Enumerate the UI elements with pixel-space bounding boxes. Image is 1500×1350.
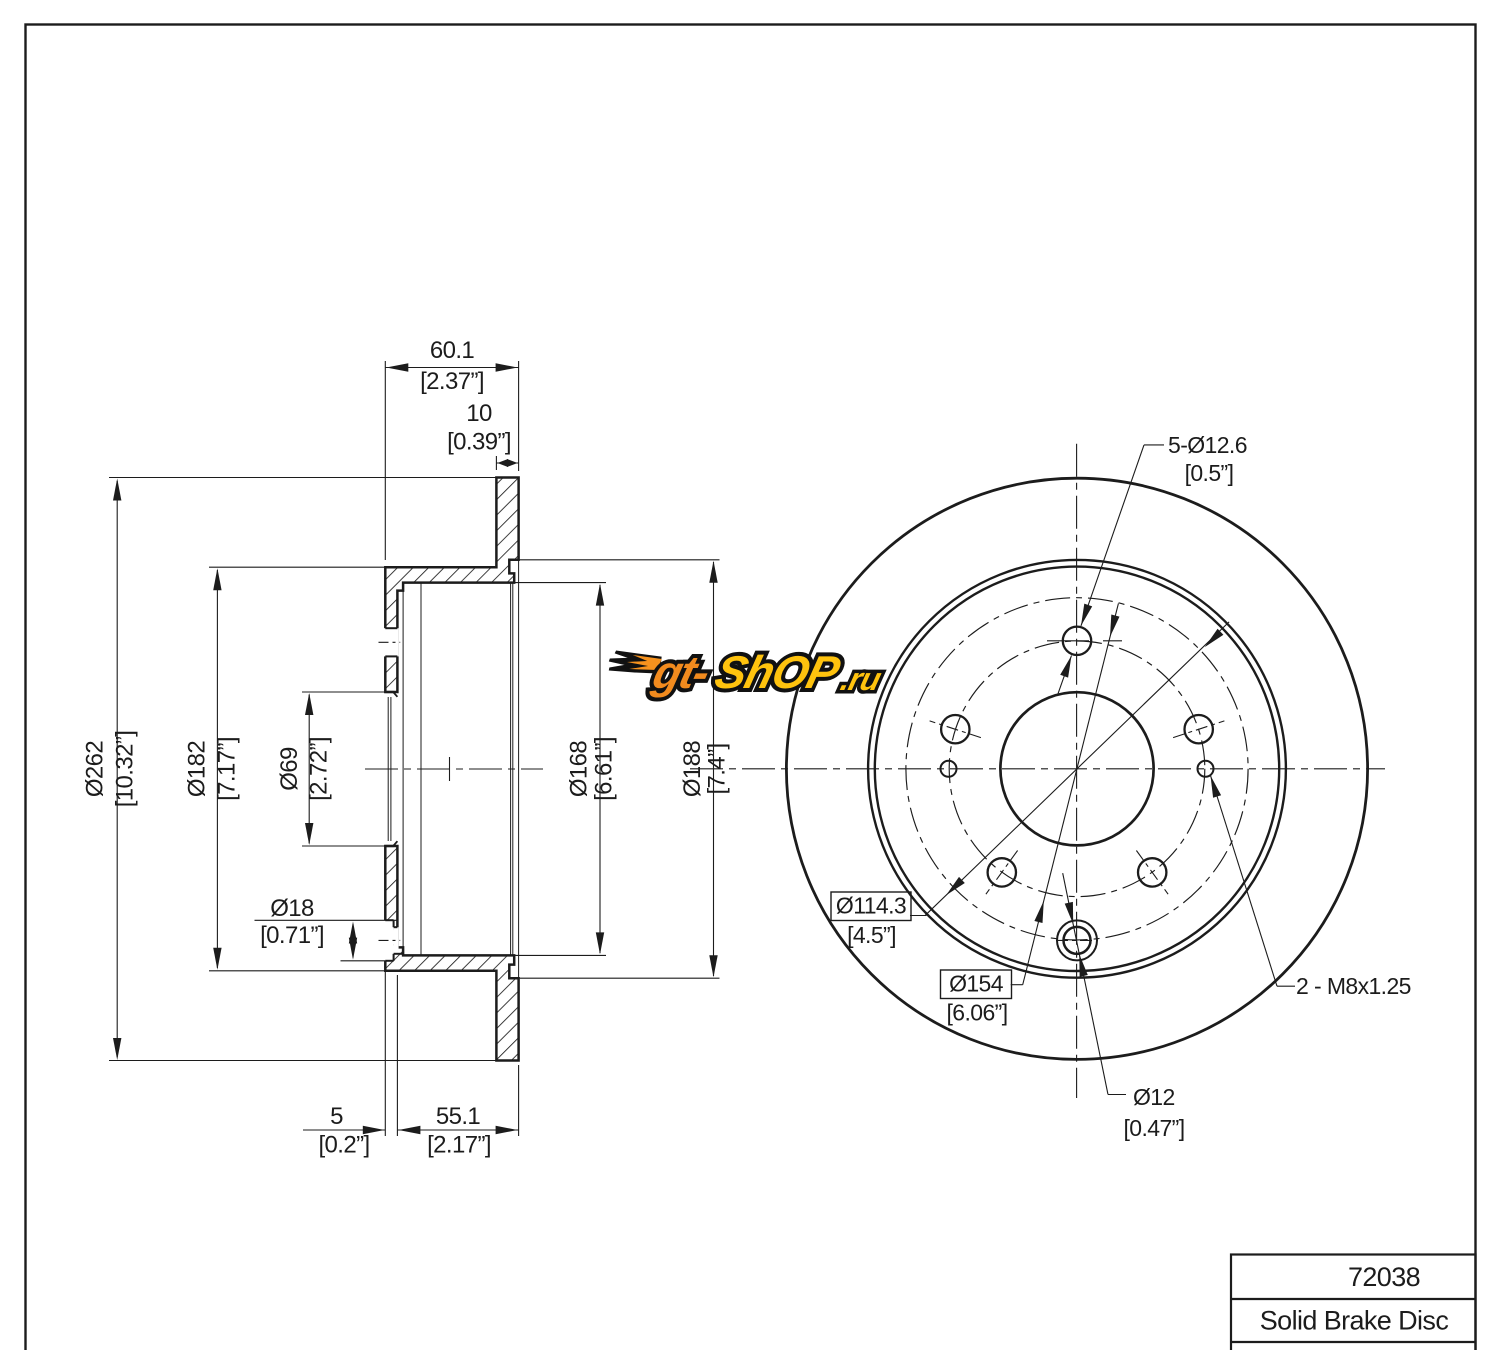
dim O182: [209, 566, 385, 568]
svg-text:[0.2”]: [0.2”]: [318, 1132, 369, 1159]
M8 service hole left: [941, 761, 957, 777]
svg-text:2 - M8x1.25: 2 - M8x1.25: [1296, 973, 1411, 999]
svg-text:60.1: 60.1: [430, 337, 475, 364]
stud hole O12.6 #4: [988, 858, 1016, 886]
stud hole tick: [930, 721, 981, 738]
stud hole tick: [1173, 721, 1224, 738]
dim 60.1: [384, 361, 386, 560]
svg-text:Ø168: Ø168: [566, 741, 593, 798]
circle O188: [868, 560, 1286, 978]
svg-text:[2.17”]: [2.17”]: [427, 1132, 491, 1159]
svg-text:[4.5”]: [4.5”]: [847, 922, 896, 948]
silhouette edges of hat and step: [402, 591, 404, 948]
right view vertical center line: [1076, 444, 1078, 1098]
dim 5 (bottom): [384, 971, 386, 1136]
svg-text:[0.39”]: [0.39”]: [447, 429, 511, 456]
O154 arrow upper-right (inward, per target): [1205, 629, 1224, 647]
stud hole O12.6 #5: [1138, 858, 1166, 886]
dim O69: [302, 691, 385, 693]
bore silhouette lines: [387, 697, 389, 841]
dim 55.1 (bottom): [518, 1065, 520, 1136]
bolt circle O154 (dash-dot): [906, 598, 1248, 940]
O154 arrow lower-left (outward): [946, 877, 965, 895]
stud hole O12.6 #2: [1185, 715, 1213, 743]
svg-text:55.1: 55.1: [436, 1103, 481, 1130]
stud hole tick: [1136, 851, 1168, 895]
right view horizontal center line: [690, 768, 1385, 770]
O114.3 arrow lower (inward up): [1034, 901, 1043, 923]
O114.3 arrow upper (inward down): [1110, 615, 1120, 637]
svg-text:Solid Brake Disc: Solid Brake Disc: [1260, 1306, 1449, 1336]
bore O69 edges: [385, 691, 394, 693]
stud hole O12.6 #1: [1063, 627, 1091, 655]
stud hole tick a: [1047, 640, 1089, 642]
svg-text:Ø18: Ø18: [270, 895, 314, 922]
small arrow to top stud hole from below: [1058, 656, 1072, 695]
svg-text:5-Ø12.6: 5-Ø12.6: [1168, 432, 1247, 458]
svg-text:5: 5: [330, 1103, 343, 1130]
pin hole O12/O18 bottom: [1057, 920, 1097, 960]
stud hole in section (upper wall): [384, 628, 399, 656]
section upper half profile (hatched): [385, 478, 518, 693]
leader O12: [1108, 1094, 1126, 1096]
svg-text:Ø154: Ø154: [949, 971, 1004, 997]
svg-text:10: 10: [466, 400, 492, 427]
svg-text:Ø262: Ø262: [82, 741, 109, 798]
bolt circle O114.3 (dash-dot): [949, 641, 1205, 897]
arrow into hole bottom: [1079, 954, 1088, 976]
svg-text:[2.37”]: [2.37”]: [420, 368, 484, 395]
diameter line 44deg: [925, 622, 1229, 916]
svg-text:[7.17”]: [7.17”]: [214, 737, 241, 801]
pin hole tick: [1056, 939, 1098, 941]
leader 2-M8x1.25: [1277, 985, 1295, 987]
svg-text:[0.5”]: [0.5”]: [1185, 460, 1234, 486]
svg-text:[6.06”]: [6.06”]: [946, 1000, 1007, 1026]
pin hole center mark: [379, 939, 401, 941]
title block: [1231, 1255, 1476, 1350]
dim 10: [495, 456, 497, 470]
diameter line steep: [1023, 604, 1119, 985]
arrow into hole top: [1065, 902, 1074, 924]
stud hole center mark: [379, 641, 401, 643]
svg-text:72038: 72038: [1348, 1262, 1420, 1292]
section center line: [365, 768, 543, 770]
svg-text:Ø12: Ø12: [1133, 1084, 1175, 1110]
center bore O69: [1000, 692, 1153, 845]
dim O168: [514, 582, 606, 584]
speed lines: [607, 652, 664, 672]
section lower half profile (hatched): [385, 846, 518, 1061]
boxed label O114.3: [910, 915, 927, 917]
dim O188: [519, 559, 720, 561]
svg-text:Ø114.3: Ø114.3: [836, 893, 906, 919]
boxed label O154: [1011, 984, 1023, 986]
stud hole tick: [986, 851, 1018, 895]
stud hole tick b: [1103, 640, 1122, 642]
svg-text:[6.61”]: [6.61”]: [591, 737, 618, 801]
dim O262: [109, 477, 496, 479]
svg-text:ShOP: ShOP: [710, 647, 846, 698]
circle O182: [875, 567, 1279, 971]
svg-text:[10.32”]: [10.32”]: [112, 731, 139, 808]
svg-text:Ø69: Ø69: [276, 747, 303, 791]
M8 service hole right: [1198, 761, 1214, 777]
leader 5-O12.6: [1144, 444, 1164, 446]
svg-text:Ø182: Ø182: [184, 741, 211, 798]
stud hole O12.6 #3: [941, 715, 969, 743]
gt-shop.ru logo: [600, 647, 889, 698]
right view outer circle O262: [786, 478, 1367, 1059]
svg-text:[0.47”]: [0.47”]: [1123, 1115, 1184, 1141]
svg-text:[2.72”]: [2.72”]: [306, 737, 333, 801]
svg-text:[0.71”]: [0.71”]: [260, 922, 324, 949]
pin hole O18/O12 in section (lower wall): [384, 920, 394, 961]
